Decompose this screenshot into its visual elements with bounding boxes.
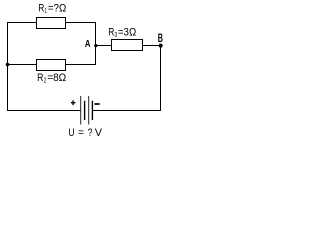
wire: top branch horizontal: [7, 22, 96, 24]
wire: node B vertical down: [160, 45, 162, 111]
svg-text:2: 2: [44, 77, 47, 84]
wire: left vertical: [7, 22, 9, 111]
resistor R2: [37, 60, 66, 71]
wire: bottom left to battery: [7, 110, 81, 112]
node B junction dot: [159, 44, 163, 48]
battery minus sign: [94, 103, 99, 105]
svg-text:3: 3: [115, 32, 118, 39]
label U = ? V: [68, 127, 102, 139]
label R3=3Ohm: [108, 26, 136, 39]
svg-text:A: A: [85, 38, 91, 50]
svg-text:=8Ω: =8Ω: [47, 72, 66, 84]
wire: node A vertical (joins top and middle branches): [95, 22, 97, 65]
label R2=8Ohm: [37, 72, 66, 84]
battery U: short thick plate right: [91, 101, 93, 120]
resistor R1: [37, 18, 66, 29]
svg-text:=3Ω: =3Ω: [118, 26, 136, 38]
svg-text:?: ?: [88, 127, 93, 139]
svg-text:R: R: [108, 26, 114, 38]
battery U: short thick plate: [84, 101, 86, 120]
wire: battery to bottom right: [93, 110, 162, 112]
svg-text:B: B: [158, 31, 163, 45]
svg-text:=?Ω: =?Ω: [48, 3, 66, 15]
node A junction dot: [94, 44, 97, 47]
svg-text:U: U: [68, 127, 74, 139]
wire: node A to R3: [96, 45, 113, 47]
svg-text:V: V: [95, 127, 103, 139]
battery U: long plate right: [88, 96, 90, 125]
svg-text:=: =: [78, 127, 84, 139]
battery plus sign: [71, 100, 76, 105]
svg-text:R: R: [37, 72, 43, 84]
wire: R3 to node B: [142, 45, 161, 47]
battery U: long plate left: [80, 96, 82, 125]
node: junction dot left (middle branch tap): [6, 63, 10, 67]
resistor R3: [112, 40, 143, 51]
wire: middle branch horizontal: [7, 64, 96, 66]
svg-text:R: R: [38, 3, 44, 15]
label R1=?Ohm: [38, 3, 66, 16]
svg-text:1: 1: [45, 8, 47, 15]
